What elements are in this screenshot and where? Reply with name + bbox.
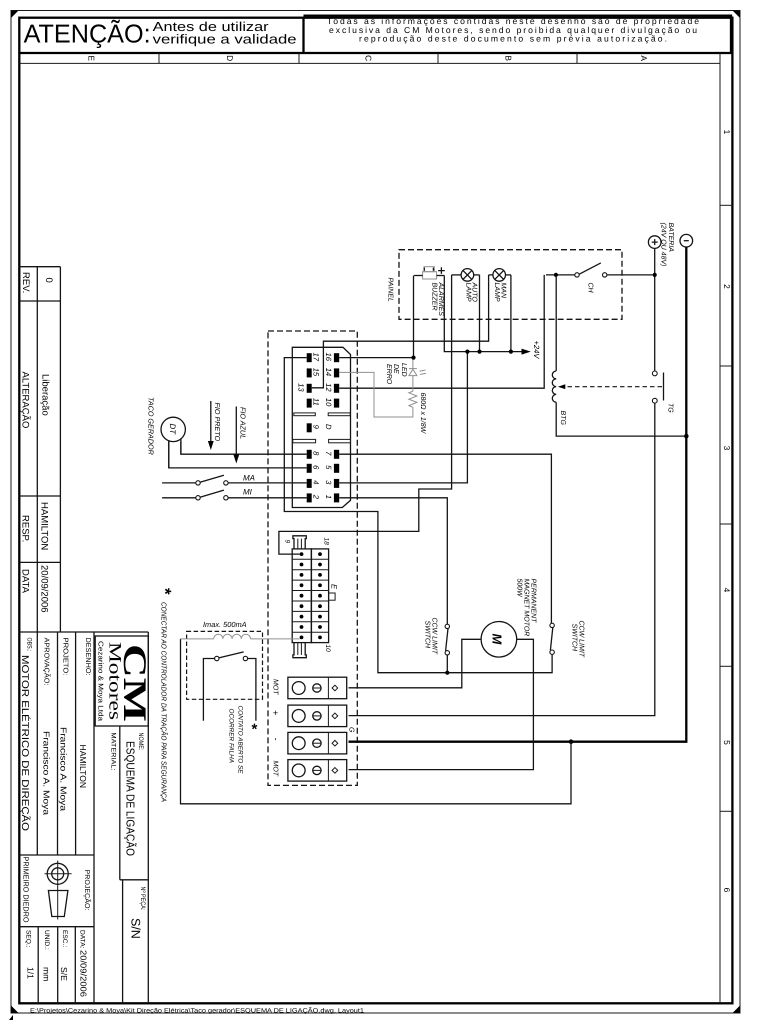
svg-text:FIO AZUL: FIO AZUL — [239, 407, 248, 439]
connector body — [292, 347, 350, 507]
wire MAN lamp right to rail — [510, 281, 512, 352]
svg-text:ESC.:: ESC.: — [61, 930, 68, 947]
terminal top mount tab — [293, 536, 306, 549]
svg-text:12: 12 — [324, 383, 333, 392]
svg-text:15: 15 — [312, 368, 321, 377]
battery minus circle — [680, 234, 693, 247]
svg-text:Francisco A. Moya: Francisco A. Moya — [42, 731, 52, 815]
motor left wire to MOT row1 — [349, 639, 482, 688]
svg-text:ERRO: ERRO — [385, 364, 392, 385]
svg-text:CCW LIMIT: CCW LIMIT — [431, 618, 438, 655]
projection symbol — [47, 863, 68, 884]
svg-text:2: 2 — [312, 494, 321, 500]
BTG bottom wire to bus — [556, 402, 685, 436]
svg-text:BUZZER: BUZZER — [431, 283, 438, 311]
middle col lines — [57, 632, 59, 855]
svg-text:17: 17 — [312, 353, 321, 362]
motor M circle — [481, 622, 517, 658]
projecao row lines — [19, 854, 94, 856]
MI switch — [162, 497, 196, 499]
controller dashed box — [268, 331, 357, 785]
resistor 680ohm grey zigzag — [409, 391, 417, 407]
+24V rail from buzzer right — [444, 276, 523, 352]
fold mark top-right — [733, 11, 741, 19]
svg-text:mm: mm — [42, 967, 52, 981]
svg-text:S/E: S/E — [59, 967, 69, 981]
pins left column — [307, 353, 312, 362]
svg-text:HAMILTON: HAMILTON — [78, 745, 88, 789]
MA switch — [162, 482, 196, 484]
svg-text:SWITCH: SWITCH — [424, 621, 431, 650]
svg-text:5: 5 — [722, 740, 732, 745]
motor right wire to MOT row4 — [349, 639, 534, 769]
svg-text:20/09/2006: 20/09/2006 — [79, 950, 89, 997]
dashed link BTG to TG — [560, 386, 664, 388]
MOT terminal block row3 — [288, 732, 347, 754]
svg-text:16: 16 — [324, 353, 333, 362]
svg-text:S/N: S/N — [129, 918, 143, 939]
revision table outline — [19, 266, 60, 268]
svg-text:3: 3 — [722, 446, 732, 451]
svg-text:SWITCH: SWITCH — [571, 624, 578, 653]
CCW-L switch — [445, 624, 449, 628]
battery minus bus thick — [349, 247, 687, 742]
wire pin2 left to MI — [228, 497, 307, 499]
atencao box bottom line — [19, 52, 732, 54]
svg-text:+24V: +24V — [532, 341, 541, 360]
AUTO lamp — [461, 269, 474, 282]
svg-text:DESENHO:: DESENHO: — [84, 638, 91, 676]
bus junction to relay loop — [569, 739, 574, 744]
svg-text:UNID.:: UNID.: — [43, 930, 50, 950]
wire buzzer left down — [413, 276, 415, 358]
corner artifact bottom-left — [9, 1015, 13, 1020]
MOT terminal block row2 — [288, 705, 347, 727]
junction dot pin16/buzzer — [411, 356, 415, 360]
svg-text:680Ω x 1/8W: 680Ω x 1/8W — [419, 393, 427, 435]
svg-text:RESP.: RESP. — [20, 515, 31, 542]
wire pin1 right and down to CCW-L — [339, 498, 447, 624]
svg-text:500W: 500W — [516, 579, 523, 599]
DT wires — [168, 441, 170, 468]
battery plus circle — [648, 236, 661, 249]
svg-text:ATENÇÃO:: ATENÇÃO: — [24, 19, 151, 49]
svg-text:MAGNET MOTOR: MAGNET MOTOR — [523, 579, 530, 637]
svg-text:-: - — [271, 738, 281, 741]
svg-text:1: 1 — [324, 495, 333, 499]
svg-text:10: 10 — [324, 645, 331, 653]
grey wire pin14 to resistor chain — [339, 372, 413, 417]
disclaimer box outline — [304, 16, 732, 53]
svg-text:ESQUEMA DE LIGAÇÃO: ESQUEMA DE LIGAÇÃO — [124, 741, 138, 856]
logo box — [95, 636, 148, 726]
svg-text:DATA:: DATA: — [79, 930, 86, 949]
svg-text:Francisco A. Moya: Francisco A. Moya — [59, 727, 69, 811]
svg-text:*: * — [156, 588, 175, 595]
connector slot lower left — [293, 439, 316, 442]
title block top line — [19, 631, 148, 633]
fold mark top-left — [11, 11, 19, 19]
svg-text:DE: DE — [392, 364, 399, 374]
MOT terminal block row4 — [288, 760, 347, 782]
relay dashed box — [187, 631, 263, 699]
svg-text:CONECTAR AO CONTROLADOR DA TRA: CONECTAR AO CONTROLADOR DA TRAÇÃO PARA S… — [160, 602, 169, 802]
CH switch — [546, 274, 575, 276]
junction dot CH — [554, 273, 558, 277]
atencao divider — [302, 18, 304, 53]
svg-text:A: A — [639, 55, 649, 61]
svg-text:PAINEL: PAINEL — [387, 278, 394, 302]
svg-text:Motores: Motores — [106, 642, 126, 720]
TACO GERADOR circle DT — [161, 417, 185, 441]
svg-text:OBS.:: OBS.: — [26, 638, 33, 652]
svg-text:MI: MI — [243, 488, 253, 497]
MOT terminal block row1 — [288, 677, 347, 699]
svg-text:14: 14 — [324, 368, 333, 376]
svg-text:verifique a validade: verifique a validade — [153, 32, 297, 47]
svg-text:E:\Projetos\Cezarino & Moya\Ki: E:\Projetos\Cezarino & Moya\Kit Direção … — [30, 1006, 365, 1014]
svg-text:ALTERAÇÃO: ALTERAÇÃO — [20, 372, 32, 429]
svg-text:Liberação: Liberação — [40, 374, 51, 416]
terminal strip E — [292, 549, 335, 643]
wire pin16 right — [339, 357, 413, 359]
MAN lamp — [493, 269, 506, 282]
wire pin8 left to DT — [181, 442, 307, 455]
wire pin7 right and down to CCW-R — [339, 454, 551, 623]
svg-text:PERMANENT: PERMANENT — [530, 579, 537, 624]
svg-text:4: 4 — [722, 588, 732, 593]
wire pin3 right and up to rail — [339, 352, 467, 483]
relay contact — [215, 656, 219, 660]
svg-text:0: 0 — [43, 278, 54, 283]
svg-text:BTG: BTG — [559, 411, 566, 426]
bottom row cell lines — [37, 927, 39, 1004]
TG bottom wire to MOT row2 — [349, 403, 655, 715]
wire pin13 up and right to MAN lamp — [312, 281, 489, 388]
svg-text:*: * — [252, 721, 258, 738]
svg-text:MA: MA — [243, 474, 255, 483]
svg-text:TG: TG — [667, 403, 674, 413]
svg-text:Cezarino & Moya Ltda: Cezarino & Moya Ltda — [97, 641, 105, 721]
letters strip ticks — [158, 53, 160, 63]
connector slot upper left — [294, 413, 316, 416]
svg-text:TACO GERADOR: TACO GERADOR — [147, 397, 156, 455]
+24V arrowhead — [522, 349, 531, 355]
svg-text:MOT: MOT — [272, 679, 279, 695]
svg-text:Imax. 500mA: Imax. 500mA — [203, 620, 247, 629]
svg-text:LAMP: LAMP — [465, 283, 472, 302]
svg-text:G: G — [348, 727, 355, 733]
svg-text:20/09/2006: 20/09/2006 — [39, 565, 50, 613]
svg-text:1: 1 — [722, 130, 732, 135]
svg-text:1/1: 1/1 — [26, 967, 36, 979]
svg-text:CONTATO ABERTO SE: CONTATO ABERTO SE — [237, 706, 244, 775]
connector slot upper right — [328, 413, 350, 416]
svg-text:DATA: DATA — [20, 569, 31, 594]
svg-text:NOME:: NOME: — [137, 733, 144, 751]
nome cell lines — [119, 726, 121, 880]
svg-text:D: D — [324, 424, 333, 430]
numbers strip line — [719, 53, 721, 1003]
terminal bottom mount tab — [293, 643, 306, 658]
svg-text:9: 9 — [284, 540, 291, 544]
svg-text:11: 11 — [312, 398, 321, 406]
pins right column — [334, 353, 339, 362]
numbers strip ticks — [720, 204, 732, 206]
svg-text:FIO PRETO: FIO PRETO — [213, 403, 222, 442]
svg-text:M: M — [490, 634, 505, 646]
FIO PRETO arrow — [210, 401, 212, 442]
wire pin17 long path — [284, 358, 552, 673]
BTG coil — [555, 277, 557, 371]
connector slot lower right — [329, 439, 351, 442]
wire pin12 right to CH — [339, 275, 544, 388]
svg-text:2: 2 — [722, 284, 732, 289]
wire AUTO lamp left down to terminal row1 — [279, 281, 452, 554]
relay coil grey — [181, 638, 214, 640]
PAINEL dashed box — [399, 250, 622, 320]
svg-text:13: 13 — [297, 383, 306, 392]
buzzer body — [423, 272, 437, 279]
fold mark bottom-left — [11, 1006, 19, 1014]
svg-text:CCW LIMIT: CCW LIMIT — [578, 621, 585, 658]
svg-text:C: C — [364, 55, 374, 61]
svg-text:PRIMEIRO DIEDRO: PRIMEIRO DIEDRO — [22, 857, 31, 923]
svg-text:D: D — [225, 55, 235, 61]
svg-text:DT: DT — [168, 424, 177, 436]
svg-text:B: B — [504, 55, 514, 61]
svg-text:OCORRER FALHA: OCORRER FALHA — [228, 709, 235, 764]
svg-text:4: 4 — [312, 480, 321, 484]
svg-text:CH: CH — [587, 283, 594, 294]
svg-text:Nº PEÇA:: Nº PEÇA: — [139, 887, 146, 911]
svg-text:SEQ.:: SEQ.: — [25, 930, 32, 948]
svg-text:REV.: REV. — [20, 272, 31, 293]
svg-text:+: + — [271, 710, 281, 715]
svg-text:PROJEÇÃO:: PROJEÇÃO: — [83, 870, 92, 911]
svg-text:LED: LED — [400, 363, 407, 377]
LED de erro grey — [412, 376, 414, 392]
svg-text:MOT: MOT — [272, 761, 279, 777]
fold mark bottom-right — [733, 1006, 741, 1014]
svg-text:LAMP: LAMP — [493, 283, 500, 302]
svg-text:(24V OU 48V): (24V OU 48V) — [660, 223, 668, 267]
svg-text:18: 18 — [323, 538, 330, 546]
wire pin6 left to DT — [169, 441, 307, 468]
FIO AZUL arrow — [235, 407, 237, 456]
TG switch — [652, 371, 657, 376]
wire AUTO lamp right to rail — [479, 281, 481, 352]
svg-text:MATERIAL:: MATERIAL: — [110, 733, 117, 771]
svg-text:PROJETO:: PROJETO: — [62, 638, 69, 676]
svg-text:6: 6 — [722, 888, 732, 893]
CCW-R switch — [550, 623, 554, 627]
battery plus wire down to TG — [654, 248, 656, 371]
svg-text:HAMILTON: HAMILTON — [39, 502, 50, 550]
letters strip bottom line — [19, 62, 720, 64]
svg-text:BATERIA: BATERIA — [667, 223, 674, 253]
terminal dots — [300, 552, 322, 639]
svg-text:MOTOR ELÉTRICO DE DIREÇÃO: MOTOR ELÉTRICO DE DIREÇÃO — [19, 655, 31, 831]
svg-text:E: E — [87, 55, 97, 61]
wire pin4 left to MA — [228, 482, 307, 484]
junction dots rail — [465, 350, 469, 354]
svg-text:10: 10 — [324, 398, 333, 407]
svg-text:APROVAÇÃO:: APROVAÇÃO: — [43, 638, 52, 686]
